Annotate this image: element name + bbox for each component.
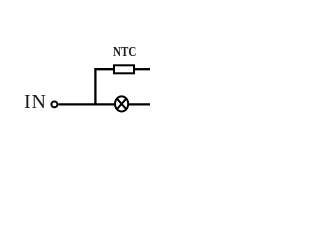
- wire: input to junction and junction to lamp: [58, 103, 114, 105]
- resistor NTC (thermistor body): [114, 65, 134, 73]
- svg-text:NTC: NTC: [113, 44, 136, 60]
- lamp EL1 (circle with X): [115, 96, 128, 111]
- wire: top branch right segment: [135, 68, 151, 70]
- wire: top branch left segment: [94, 68, 113, 70]
- junction / wire: vertical riser: [94, 69, 96, 105]
- svg-text:IN: IN: [24, 91, 47, 113]
- terminal (input open circle): [51, 102, 57, 108]
- wire: lamp to right edge: [129, 103, 150, 105]
